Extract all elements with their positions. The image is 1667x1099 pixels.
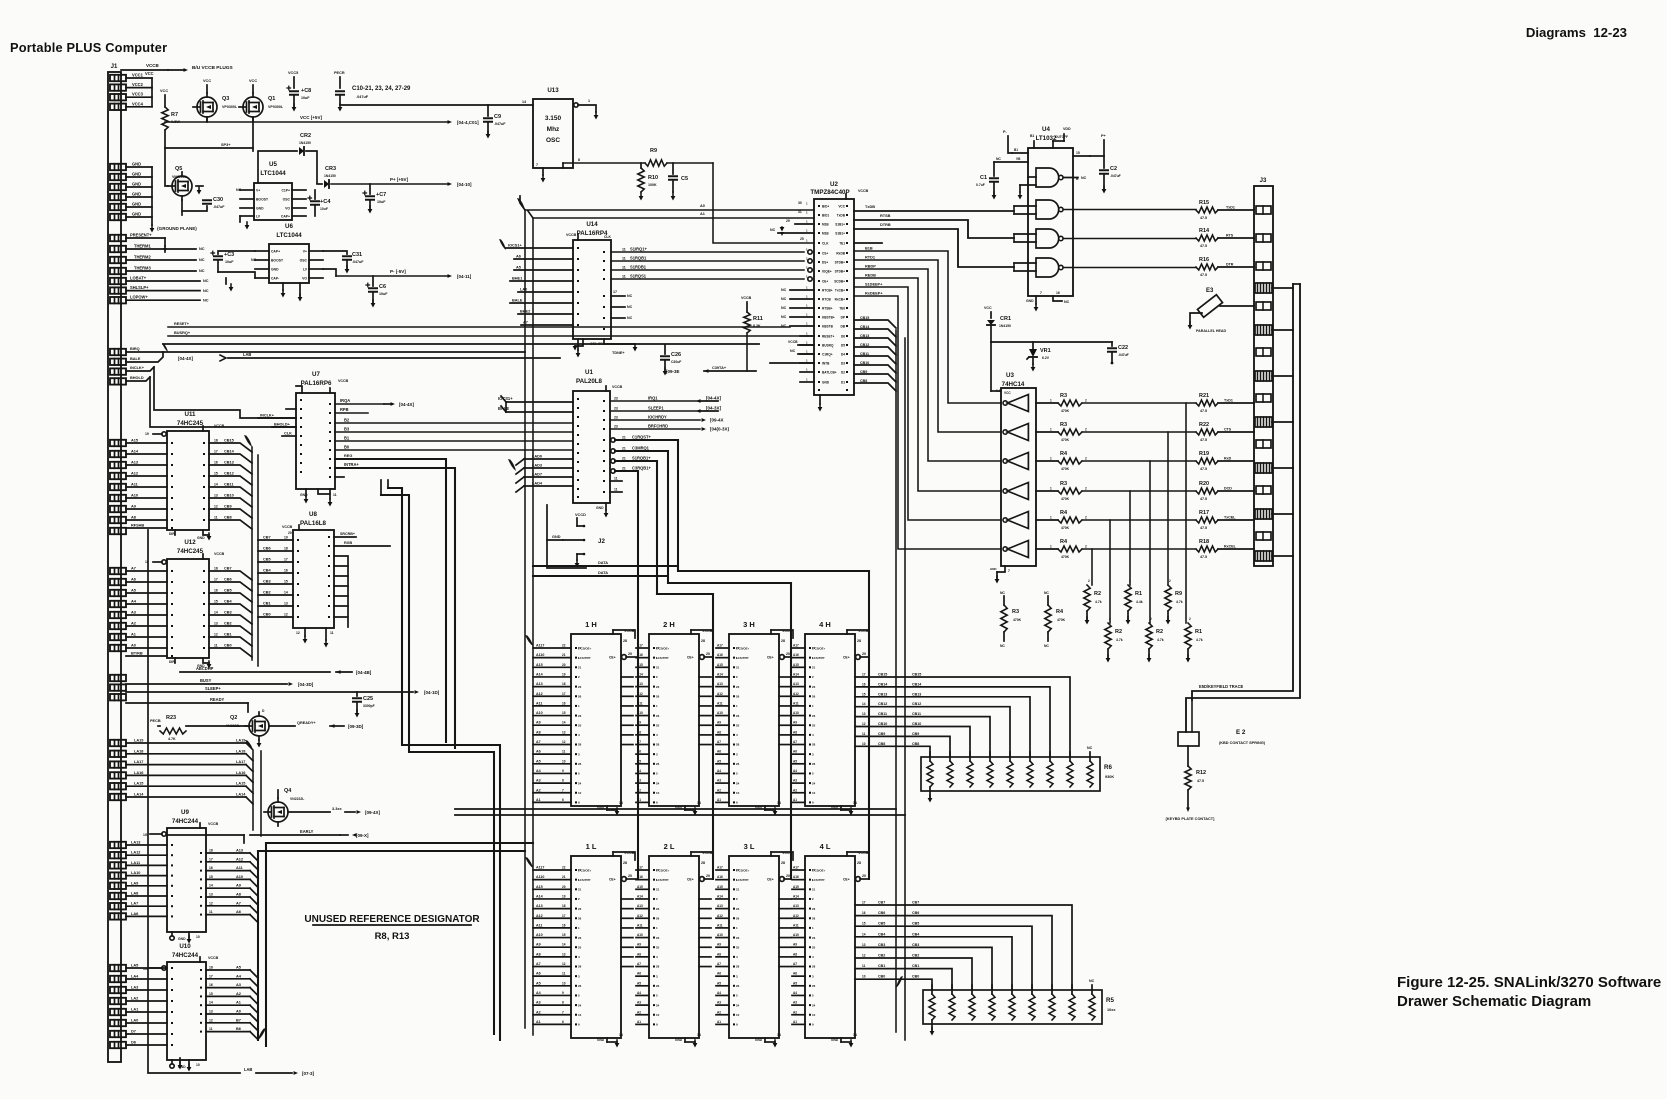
svg-text:A2: A2 [131, 622, 136, 626]
svg-text:P+ [+5V]: P+ [+5V] [390, 177, 409, 182]
svg-text:10: 10 [736, 791, 740, 795]
svg-text:B0: B0 [344, 445, 350, 450]
svg-text:CB7: CB7 [878, 901, 885, 905]
svg-text:26: 26 [656, 762, 660, 766]
svg-text:CB10: CB10 [224, 494, 234, 498]
svg-text:A13: A13 [793, 682, 799, 686]
svg-text:14: 14 [214, 483, 218, 487]
svg-text:2 H: 2 H [663, 620, 675, 629]
svg-text:47.5: 47.5 [1200, 216, 1207, 220]
svg-text:20: 20 [786, 652, 790, 656]
svg-text:16: 16 [862, 682, 866, 686]
svg-text:TxD1: TxD1 [1224, 399, 1233, 403]
svg-text:NC: NC [781, 288, 787, 292]
svg-text:VCCB: VCCB [214, 552, 225, 556]
svg-text:A11: A11 [236, 866, 244, 870]
svg-text:A10: A10 [536, 933, 543, 937]
svg-text:13: 13 [562, 730, 566, 734]
svg-text:NC: NC [199, 247, 205, 251]
svg-text:IRQ1: IRQ1 [648, 396, 658, 401]
svg-text:LA9: LA9 [131, 881, 138, 885]
svg-text:17: 17 [613, 290, 617, 294]
svg-text:31: 31 [798, 210, 802, 214]
svg-text:A3: A3 [717, 1001, 721, 1005]
svg-text:GND: GND [822, 380, 830, 384]
svg-text:BT/RB: BT/RB [131, 652, 143, 656]
svg-text:NC: NC [781, 306, 787, 310]
svg-text:A10: A10 [717, 933, 723, 937]
svg-text:24: 24 [812, 1003, 816, 1007]
svg-text:A15: A15 [717, 663, 723, 667]
svg-text:GND: GND [132, 192, 141, 197]
svg-text:10: 10 [656, 791, 660, 795]
svg-text:1: 1 [1050, 428, 1052, 432]
svg-text:14: 14 [853, 1033, 857, 1037]
svg-text:470K: 470K [1061, 409, 1070, 413]
svg-text:A10: A10 [236, 875, 243, 879]
svg-text:LA14: LA14 [134, 793, 144, 797]
svg-text:10: 10 [656, 1013, 660, 1017]
svg-text:EARLY: EARLY [300, 829, 314, 834]
svg-text:A11: A11 [536, 923, 542, 927]
svg-text:A12: A12 [717, 914, 723, 918]
svg-text:LA8: LA8 [131, 892, 139, 896]
svg-text:A7: A7 [793, 962, 797, 966]
svg-text:12: 12 [862, 722, 866, 726]
svg-text:PARALLEL HEAD: PARALLEL HEAD [1196, 329, 1227, 333]
svg-text:VN2222L: VN2222L [172, 175, 188, 179]
svg-text:LA4: LA4 [131, 975, 139, 979]
svg-text:A7: A7 [236, 901, 241, 905]
svg-text:A13: A13 [536, 682, 543, 686]
svg-text:R9: R9 [650, 148, 657, 154]
svg-text:GND: GND [552, 535, 561, 539]
svg-text:CB7: CB7 [263, 536, 271, 540]
svg-text:[04-10]: [04-10] [457, 182, 472, 187]
svg-text:A14: A14 [637, 894, 643, 898]
svg-text:A10: A10 [637, 933, 643, 937]
svg-text:DCD: DCD [1224, 487, 1232, 491]
svg-text:1G: 1G [143, 833, 148, 837]
svg-text:Q4: Q4 [284, 788, 292, 794]
svg-text:A2: A2 [236, 992, 241, 996]
svg-text:R2: R2 [1156, 629, 1163, 635]
svg-text:Drawer Schematic Diagram: Drawer Schematic Diagram [1397, 993, 1591, 1010]
svg-text:19: 19 [562, 672, 566, 676]
svg-text:VCC: VCC [160, 89, 168, 93]
svg-text:A6: A6 [236, 910, 241, 914]
svg-text:GND: GND [132, 202, 141, 207]
svg-text:S1RQB1+: S1RQB1+ [632, 456, 651, 461]
svg-text:21: 21 [736, 888, 740, 892]
svg-text:THERM3: THERM3 [134, 266, 151, 271]
svg-text:R4: R4 [1060, 510, 1068, 516]
svg-text:BIRQ: BIRQ [130, 347, 140, 351]
svg-text:A10: A10 [717, 711, 723, 715]
svg-text:11: 11 [862, 732, 866, 736]
svg-text:LCS/TPP: LCS/TPP [736, 656, 748, 660]
svg-text:CR1: CR1 [1000, 316, 1011, 322]
svg-text:15: 15 [1076, 151, 1080, 155]
svg-text:A8: A8 [717, 730, 721, 734]
svg-text:LA15: LA15 [134, 782, 144, 786]
svg-text:R3: R3 [1012, 609, 1019, 615]
svg-text:C3MRQ1: C3MRQ1 [632, 446, 650, 451]
svg-text:A9: A9 [793, 943, 797, 947]
svg-text:A4: A4 [536, 991, 541, 995]
svg-text:20: 20 [562, 885, 566, 889]
svg-text:UNUSED REFERENCE DESIGNATOR: UNUSED REFERENCE DESIGNATOR [304, 914, 480, 925]
svg-text:A12: A12 [793, 692, 799, 696]
svg-text:NC: NC [781, 315, 787, 319]
svg-text:11: 11 [614, 488, 618, 492]
svg-text:2: 2 [1085, 428, 1087, 432]
svg-text:2: 2 [1129, 579, 1131, 583]
svg-text:CTS: CTS [1224, 428, 1232, 432]
svg-text:15: 15 [562, 933, 566, 937]
svg-text:VCC: VCC [984, 306, 992, 310]
svg-text:REG: REG [344, 454, 352, 458]
svg-text:8: 8 [562, 779, 564, 783]
svg-text:J3: J3 [1260, 178, 1267, 184]
svg-text:GND: GND [1026, 299, 1034, 303]
svg-text:CB12: CB12 [860, 343, 869, 347]
svg-text:(KBD CONTACT SPRING): (KBD CONTACT SPRING) [1219, 741, 1266, 745]
svg-text:A9: A9 [637, 943, 641, 947]
svg-text:10uF: 10uF [379, 292, 388, 296]
svg-text:GND: GND [300, 493, 308, 497]
svg-text:13: 13 [562, 952, 566, 956]
svg-text:SRCRB+: SRCRB+ [340, 532, 355, 536]
svg-text:26: 26 [812, 984, 816, 988]
svg-text:A7: A7 [717, 962, 721, 966]
svg-text:TMPZ84C40P: TMPZ84C40P [810, 189, 849, 196]
svg-text:A12: A12 [536, 692, 543, 696]
svg-text:A4: A4 [793, 991, 797, 995]
svg-text:VR1: VR1 [1040, 348, 1051, 354]
svg-text:A8: A8 [637, 952, 641, 956]
svg-text:A13: A13 [637, 904, 643, 908]
svg-text:INTB: INTB [822, 361, 830, 365]
svg-text:Mhz: Mhz [547, 126, 560, 133]
svg-text:NC: NC [996, 157, 1001, 161]
svg-text:[09-3E: [09-3E [666, 369, 680, 374]
svg-text:10: 10 [736, 1013, 740, 1017]
svg-text:INCLK+: INCLK+ [260, 414, 275, 418]
svg-text:[04-3D]: [04-3D] [298, 682, 314, 687]
svg-text:A0: A0 [236, 1010, 241, 1014]
svg-text:9: 9 [562, 991, 564, 995]
svg-text:[04-1D]: [04-1D] [424, 690, 440, 695]
svg-text:17: 17 [214, 578, 218, 582]
svg-text:A4: A4 [536, 769, 541, 773]
svg-text:LAB: LAB [243, 352, 251, 357]
svg-text:17: 17 [284, 558, 288, 562]
svg-text:A110: A110 [536, 653, 544, 657]
svg-text:28: 28 [781, 861, 785, 865]
svg-text:NC: NC [781, 297, 787, 301]
svg-text:A14: A14 [793, 672, 799, 676]
svg-text:SLEEP1: SLEEP1 [648, 406, 664, 411]
svg-text:470K: 470K [1061, 497, 1070, 501]
svg-text:TDNE+: TDNE+ [612, 351, 625, 355]
svg-text:3.150: 3.150 [545, 115, 562, 122]
svg-text:A3: A3 [717, 779, 721, 783]
svg-text:TxCB+: TxCB+ [835, 288, 845, 292]
svg-text:THERM2: THERM2 [134, 255, 151, 260]
svg-text:CB0: CB0 [263, 613, 271, 617]
svg-text:A6: A6 [793, 972, 797, 976]
svg-text:CB6: CB6 [263, 547, 271, 551]
svg-text:28: 28 [578, 743, 582, 747]
svg-text:11: 11 [622, 275, 626, 279]
svg-text:1: 1 [1050, 399, 1052, 403]
svg-text:A14: A14 [536, 894, 543, 898]
svg-text:PAL16L8: PAL16L8 [300, 520, 327, 527]
svg-text:E5D/KEYFIELD TRACE: E5D/KEYFIELD TRACE [1199, 684, 1244, 689]
svg-text:NC: NC [627, 305, 633, 309]
svg-text:A8: A8 [536, 952, 541, 956]
svg-text:LA0: LA0 [131, 1019, 138, 1023]
svg-text:16: 16 [214, 589, 218, 593]
svg-text:NC: NC [1044, 644, 1049, 648]
svg-text:20: 20 [706, 874, 710, 878]
svg-text:A11: A11 [131, 483, 139, 487]
svg-text:20: 20 [562, 663, 566, 667]
svg-text:NC: NC [790, 349, 796, 353]
svg-text:7: 7 [562, 1010, 564, 1014]
svg-text:IRQA: IRQA [340, 398, 350, 403]
svg-text:NC: NC [1000, 591, 1005, 595]
svg-text:DS+: DS+ [822, 260, 828, 264]
svg-text:10uF: 10uF [377, 200, 386, 204]
svg-text:[09-4X]: [09-4X] [365, 810, 381, 815]
svg-text:20: 20 [628, 874, 632, 878]
svg-text:M1B: M1B [822, 222, 829, 226]
svg-text:A2: A2 [536, 788, 541, 792]
svg-text:R2: R2 [1115, 629, 1122, 635]
svg-text:4.7K: 4.7K [168, 737, 176, 741]
svg-text:BALE: BALE [130, 357, 141, 361]
svg-text:11: 11 [622, 266, 626, 270]
svg-text:17: 17 [214, 450, 218, 454]
svg-text:24: 24 [656, 1003, 660, 1007]
svg-text:CB9: CB9 [912, 732, 919, 736]
svg-text:CLK: CLK [284, 432, 292, 436]
svg-text:20: 20 [786, 874, 790, 878]
svg-text:NC: NC [770, 228, 776, 232]
svg-text:A9: A9 [717, 943, 721, 947]
svg-text:A16: A16 [793, 653, 799, 657]
svg-text:Diagrams 12-23: Diagrams 12-23 [1526, 25, 1627, 40]
svg-text:21: 21 [656, 888, 660, 892]
svg-text:18: 18 [209, 966, 213, 970]
svg-text:14: 14 [562, 721, 566, 725]
svg-text:RxDEEP+: RxDEEP+ [865, 292, 883, 296]
svg-text:28: 28 [578, 965, 582, 969]
svg-text:10: 10 [562, 759, 566, 763]
svg-text:U5: U5 [269, 161, 277, 168]
svg-text:A6: A6 [793, 750, 797, 754]
svg-text:22: 22 [812, 868, 816, 872]
svg-text:47.5: 47.5 [1200, 244, 1207, 248]
svg-text:17: 17 [562, 692, 566, 696]
svg-text:[09-4X: [09-4X [710, 418, 724, 423]
svg-text:0.7uF: 0.7uF [976, 183, 985, 187]
svg-text:26: 26 [656, 916, 660, 920]
svg-text:CB14: CB14 [224, 450, 235, 454]
svg-text:22: 22 [578, 646, 582, 650]
svg-text:23: 23 [812, 685, 816, 689]
svg-text:VCCB: VCCB [338, 379, 349, 383]
svg-text:[KEYBD PLATE CONTACT]: [KEYBD PLATE CONTACT] [1166, 817, 1215, 821]
svg-text:RFSHB: RFSHB [131, 524, 144, 528]
svg-text:A11: A11 [793, 923, 799, 927]
svg-text:B1: B1 [344, 436, 350, 441]
svg-text:24: 24 [812, 781, 816, 785]
svg-text:DATA: DATA [598, 571, 608, 575]
svg-text:A13: A13 [131, 461, 138, 465]
svg-text:21: 21 [578, 888, 582, 892]
svg-text:+C8: +C8 [301, 88, 311, 94]
svg-text:LA17: LA17 [134, 760, 143, 764]
svg-text:(GROUND PLANE): (GROUND PLANE) [157, 226, 197, 231]
svg-text:R3: R3 [1060, 481, 1067, 487]
svg-text:SP3+: SP3+ [221, 143, 231, 147]
svg-text:A15: A15 [793, 663, 799, 667]
svg-text:LA6: LA6 [131, 912, 138, 916]
svg-text:A14: A14 [131, 450, 139, 454]
svg-text:22: 22 [578, 868, 582, 872]
svg-text:A10: A10 [536, 711, 543, 715]
svg-text:R15: R15 [1199, 200, 1209, 206]
svg-text:D1: D1 [841, 380, 845, 384]
svg-text:A16: A16 [793, 875, 799, 879]
svg-text:CB1: CB1 [224, 633, 233, 637]
svg-text:22: 22 [562, 644, 566, 648]
svg-text:28: 28 [701, 639, 705, 643]
svg-text:[09-X]: [09-X] [356, 833, 369, 838]
svg-text:[04-4X]: [04-4X] [706, 396, 722, 401]
svg-text:4.7k: 4.7k [1176, 600, 1183, 604]
svg-text:A13: A13 [236, 849, 243, 853]
svg-text:VN2222L: VN2222L [290, 797, 304, 801]
svg-text:A11: A11 [717, 701, 723, 705]
svg-text:26: 26 [578, 762, 582, 766]
svg-text:RBDP: RBDP [865, 265, 876, 269]
svg-text:9: 9 [562, 769, 564, 773]
svg-text:J2: J2 [598, 538, 605, 545]
svg-text:15: 15 [862, 692, 866, 696]
svg-text:25: 25 [812, 723, 816, 727]
svg-text:14: 14 [619, 801, 623, 805]
svg-text:A4: A4 [717, 991, 721, 995]
svg-text:14: 14 [562, 943, 566, 947]
svg-text:R1: R1 [1195, 629, 1202, 635]
svg-text:CB11: CB11 [912, 712, 921, 716]
svg-text:A17: A17 [793, 644, 799, 648]
svg-text:B3: B3 [344, 427, 350, 432]
svg-text:LA18: LA18 [236, 749, 246, 753]
svg-text:23: 23 [614, 416, 618, 420]
svg-text:A6: A6 [131, 578, 136, 582]
svg-text:IOCHRDY: IOCHRDY [648, 415, 667, 420]
svg-text:U11: U11 [184, 411, 196, 418]
svg-text:A3: A3 [793, 1001, 797, 1005]
svg-text:INTRA+: INTRA+ [344, 462, 359, 467]
svg-text:C3RQB1+: C3RQB1+ [632, 466, 651, 471]
svg-text:20: 20 [862, 652, 866, 656]
svg-text:LA16: LA16 [134, 771, 143, 775]
svg-text:17: 17 [209, 857, 213, 861]
svg-text:VCC [+5V]: VCC [+5V] [300, 115, 322, 120]
svg-text:A8: A8 [236, 893, 242, 897]
svg-text:23: 23 [656, 936, 660, 940]
svg-text:A117: A117 [536, 644, 544, 648]
svg-text:LAD0: LAD0 [532, 455, 542, 459]
svg-text:LA14: LA14 [236, 793, 246, 797]
svg-text:74HC244: 74HC244 [172, 952, 199, 959]
svg-text:NC: NC [1089, 979, 1095, 983]
svg-text:NC: NC [203, 279, 209, 283]
svg-text:C6: C6 [379, 284, 386, 290]
svg-text:A9: A9 [536, 943, 541, 947]
svg-text:S1RQB1: S1RQB1 [630, 256, 647, 261]
svg-text:1N4150: 1N4150 [299, 141, 311, 145]
svg-text:LA3: LA3 [131, 986, 138, 990]
svg-text:REDB: REDB [865, 274, 876, 278]
svg-text:23: 23 [656, 907, 660, 911]
svg-text:6: 6 [562, 1020, 564, 1024]
svg-text:TxDB: TxDB [865, 205, 875, 209]
svg-text:B/U VCCB PLUGS: B/U VCCB PLUGS [192, 65, 233, 71]
svg-text:CB6: CB6 [912, 911, 919, 915]
svg-text:21: 21 [622, 447, 626, 451]
svg-text:C5: C5 [681, 176, 688, 182]
svg-text:GND: GND [831, 1038, 839, 1042]
svg-text:A12: A12 [637, 914, 643, 918]
svg-text:A11: A11 [717, 923, 723, 927]
svg-text:CLK: CLK [604, 235, 611, 239]
svg-text:A12: A12 [536, 914, 543, 918]
svg-text:QREADY+: QREADY+ [297, 721, 316, 725]
svg-text:THERM1: THERM1 [134, 244, 151, 249]
svg-text:A3: A3 [536, 1001, 541, 1005]
svg-text:CE+: CE+ [767, 878, 774, 882]
svg-text:1 H: 1 H [585, 620, 597, 629]
svg-text:GND: GND [256, 206, 264, 210]
svg-text:11: 11 [333, 493, 337, 497]
svg-text:[04-4X]: [04-4X] [178, 356, 194, 361]
svg-text:R5: R5 [1106, 997, 1114, 1004]
svg-text:TxDB: TxDB [837, 213, 846, 217]
svg-text:3300pF: 3300pF [363, 704, 375, 708]
svg-text:21: 21 [622, 436, 626, 440]
svg-text:U2: U2 [830, 181, 838, 188]
svg-text:24: 24 [578, 1003, 582, 1007]
svg-text:VCCB: VCCB [566, 233, 577, 237]
svg-text:STDB+: STDB+ [835, 260, 846, 264]
svg-text:14: 14 [862, 932, 866, 936]
svg-text:8: 8 [562, 1001, 564, 1005]
svg-text:D6: D6 [841, 334, 845, 338]
svg-text:47.5: 47.5 [1200, 409, 1207, 413]
svg-text:1: 1 [1050, 545, 1052, 549]
svg-text:C1RQST+: C1RQST+ [632, 435, 651, 440]
svg-text:A6: A6 [536, 972, 541, 976]
svg-text:DP: DP [841, 315, 845, 319]
svg-text:17: 17 [862, 673, 866, 677]
